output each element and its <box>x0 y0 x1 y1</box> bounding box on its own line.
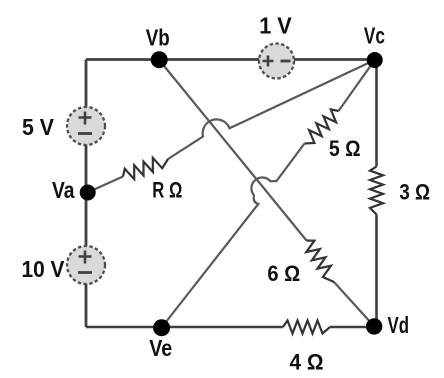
svg-text:Va: Va <box>52 177 75 203</box>
voltage source 10V circle <box>67 246 105 284</box>
svg-text:1 V: 1 V <box>259 13 292 39</box>
wire bottom rail Ve-Vd <box>86 326 283 329</box>
svg-text:Vb: Vb <box>146 25 170 51</box>
node Vb dot <box>151 51 168 68</box>
wire left rail <box>85 60 88 328</box>
voltage source 5V circle <box>67 107 105 145</box>
wire right rail Vc-Vd (3 ohm branch) <box>375 60 378 167</box>
resistor 6 ohm zigzag <box>306 241 334 283</box>
svg-text:Vc: Vc <box>364 23 385 49</box>
node Vc dot <box>367 52 383 68</box>
svg-text:Vd: Vd <box>388 312 410 338</box>
wire 5 ohm resistor to Ve with crossover hump <box>162 144 305 328</box>
resistor 3 ohm zigzag <box>370 167 383 215</box>
resistor R (R ohm) zigzag <box>123 158 168 179</box>
voltage source 1V circle <box>259 44 294 79</box>
resistor 5 ohm zigzag <box>305 109 339 143</box>
svg-text:4 Ω: 4 Ω <box>290 350 324 375</box>
svg-text:10 V: 10 V <box>22 256 66 282</box>
svg-text:Ve: Ve <box>149 335 172 361</box>
resistor 4 ohm zigzag <box>283 321 330 334</box>
wire Va to R resistor <box>88 177 124 193</box>
svg-text:5 Ω: 5 Ω <box>329 136 361 161</box>
wire R resistor to Vc with crossover hump <box>168 60 375 159</box>
wire top rail Vb-Vc with 1V source <box>86 58 377 61</box>
node Vd dot <box>366 318 382 334</box>
node Ve dot <box>153 319 170 336</box>
node Va dot <box>80 185 96 201</box>
svg-text:6 Ω: 6 Ω <box>267 261 300 286</box>
wire Vb-Vd diagonal (6 ohm branch) <box>159 60 306 241</box>
wire Vc to 5 ohm resistor <box>339 60 375 111</box>
svg-text:5 V: 5 V <box>22 114 55 140</box>
svg-text:3 Ω: 3 Ω <box>399 180 430 205</box>
svg-text:R Ω: R Ω <box>152 178 182 203</box>
